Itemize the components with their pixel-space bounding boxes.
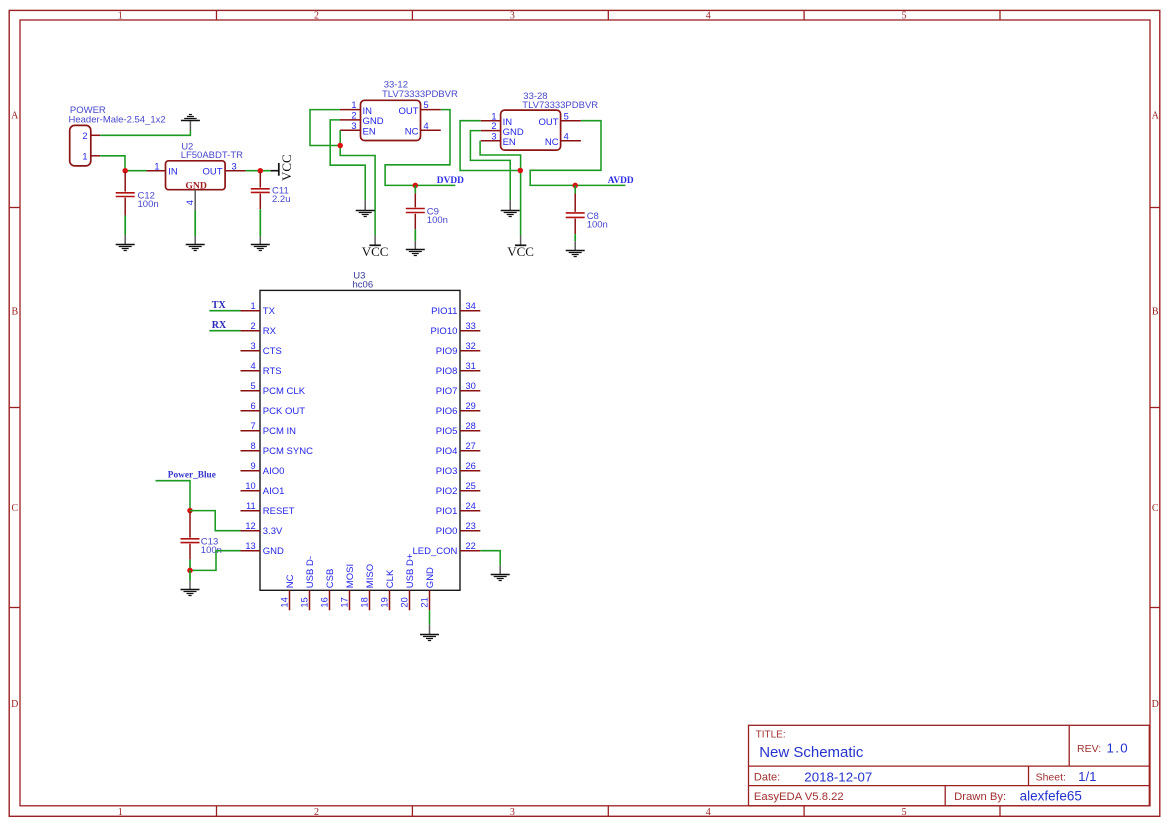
label C9 100n <box>427 207 448 227</box>
svg-text:1: 1 <box>251 301 256 311</box>
svg-text:3: 3 <box>510 10 515 21</box>
U3 pin 17 MOSI <box>340 564 356 610</box>
svg-text:PIO2: PIO2 <box>436 486 458 497</box>
svg-text:5: 5 <box>902 807 907 818</box>
svg-text:PIO6: PIO6 <box>436 406 458 417</box>
U3 pin 16 CSB <box>320 569 336 611</box>
svg-text:VCC: VCC <box>362 244 389 259</box>
U3 pin 6 PCK OUT <box>241 401 306 417</box>
svg-text:3: 3 <box>251 341 256 351</box>
U3 pin 20 USB D+ <box>400 553 416 610</box>
IC U3 hc06 body <box>260 290 460 590</box>
svg-text:17: 17 <box>340 597 350 607</box>
junction C13 / U3 GND / ground <box>187 568 193 574</box>
svg-text:100n: 100n <box>427 215 448 226</box>
svg-text:RX: RX <box>263 326 277 337</box>
svg-text:OUT: OUT <box>539 117 559 128</box>
svg-text:PIO0: PIO0 <box>436 526 458 537</box>
svg-text:USB D+: USB D+ <box>405 553 416 588</box>
POWER pin 2 <box>82 131 100 141</box>
ground stem <box>194 236 196 244</box>
wire U2 OUT to VCC / C11 <box>246 170 271 172</box>
svg-text:PIO3: PIO3 <box>436 466 458 477</box>
svg-text:B: B <box>1152 307 1159 318</box>
capacitor C13 <box>181 512 200 560</box>
svg-text:2: 2 <box>491 121 496 131</box>
ground stem <box>429 625 431 635</box>
svg-text:4: 4 <box>706 807 711 818</box>
svg-text:4: 4 <box>706 10 711 21</box>
svg-text:TLV73333PDBVR: TLV73333PDBVR <box>382 89 458 100</box>
svg-text:3: 3 <box>491 131 496 141</box>
svg-text:VCC: VCC <box>279 154 294 181</box>
svg-text:GND: GND <box>185 181 207 192</box>
wire Power_Blue to node <box>156 481 191 511</box>
svg-text:Header-Male-2.54_1x2: Header-Male-2.54_1x2 <box>69 115 166 126</box>
U3 pin 21 GND <box>420 567 436 610</box>
svg-text:New Schematic: New Schematic <box>759 744 864 761</box>
wire C13 bottom to node <box>189 560 191 571</box>
U3 pin 18 MISO <box>360 564 376 610</box>
TLV2 pin 4 NC <box>545 131 581 148</box>
svg-text:2.2u: 2.2u <box>272 194 291 205</box>
svg-text:GND: GND <box>425 567 436 588</box>
junction AVDD / C8 <box>572 183 578 189</box>
TLV1 pin 2 GND <box>340 111 384 128</box>
svg-text:Sheet:: Sheet: <box>1036 772 1066 784</box>
junction node VCC (U2 OUT / C11) <box>258 168 264 174</box>
svg-text:TITLE:: TITLE: <box>756 730 786 741</box>
svg-text:5: 5 <box>424 100 429 110</box>
ground (C9) <box>406 250 425 256</box>
U3 pin 25 PIO2 <box>436 481 481 497</box>
svg-text:MOSI: MOSI <box>345 564 356 588</box>
svg-text:C: C <box>11 503 18 514</box>
TLV2 pin 1 IN <box>481 111 513 128</box>
power VCC (below TLV1) <box>362 236 389 260</box>
wire TLV1 IN loop to VCC node <box>310 110 340 146</box>
svg-text:14: 14 <box>280 597 290 607</box>
power VCC (below TLV2) <box>507 236 534 260</box>
svg-text:B: B <box>11 307 18 318</box>
U3 pin 22 LED_CON <box>413 541 481 557</box>
svg-text:hc06: hc06 <box>353 279 374 290</box>
U3 pin 7 PCM IN <box>241 421 297 437</box>
svg-text:2: 2 <box>314 10 319 21</box>
svg-text:CLK: CLK <box>385 569 396 588</box>
svg-text:NC: NC <box>285 574 296 588</box>
svg-text:16: 16 <box>320 597 330 607</box>
wire TLV2 IN loop to VCC node <box>460 121 518 171</box>
svg-text:PIO11: PIO11 <box>431 306 457 317</box>
regulator 33-12 TLV73333PDBVR body <box>361 100 421 140</box>
wire net TX stub <box>209 310 240 312</box>
svg-text:28: 28 <box>466 421 476 431</box>
wire U3 pin21 GND to ground <box>429 610 431 624</box>
POWER pin 1 <box>82 151 100 161</box>
U3 pin 23 PIO0 <box>436 521 481 537</box>
label U2 LF50ABDT-TR <box>181 142 243 162</box>
svg-text:2018-12-07: 2018-12-07 <box>804 769 872 784</box>
U3 pin 12 3.3V <box>241 521 284 537</box>
U3 pin 29 PIO6 <box>436 401 481 417</box>
svg-text:34: 34 <box>466 301 476 311</box>
U3 pin 10 AIO1 <box>241 481 285 497</box>
svg-text:4: 4 <box>424 121 429 131</box>
svg-text:PIO9: PIO9 <box>436 346 458 357</box>
svg-text:25: 25 <box>466 481 476 491</box>
svg-text:PCM IN: PCM IN <box>263 426 296 437</box>
title block <box>749 725 1150 806</box>
wire TLV1 OUT to DVDD net <box>385 110 455 186</box>
wire TLV2 OUT to AVDD net <box>530 121 625 186</box>
regulator U2 LF50ABDT-TR body <box>166 161 226 190</box>
ground (U2 pin 4) <box>186 245 205 251</box>
U2 pin 3 OUT <box>203 161 246 177</box>
svg-text:12: 12 <box>245 521 255 531</box>
svg-text:1: 1 <box>491 111 496 121</box>
U3 pin 27 PIO4 <box>436 441 481 457</box>
svg-text:4: 4 <box>564 131 569 141</box>
U3 pin 28 PIO5 <box>436 421 481 437</box>
svg-text:10: 10 <box>245 481 255 491</box>
wire net RX stub <box>209 330 240 332</box>
svg-text:8: 8 <box>251 441 256 451</box>
connector POWER Header-Male-2.54_1x2 <box>70 125 91 165</box>
wire U2 pin4 to ground <box>194 211 196 237</box>
svg-text:RESET: RESET <box>263 506 295 517</box>
svg-text:6: 6 <box>251 401 256 411</box>
ground (U3 pin21) <box>420 635 439 641</box>
svg-text:TX: TX <box>263 306 276 317</box>
ground stem <box>414 241 416 250</box>
ground stem <box>499 565 501 575</box>
svg-text:9: 9 <box>251 461 256 471</box>
ground stem <box>189 581 191 590</box>
label C11 2.2u <box>272 186 291 206</box>
U3 pin 31 PIO8 <box>436 361 481 377</box>
wire TLV2 GND to ground <box>470 131 510 201</box>
ground (TLV1 GND) <box>356 211 375 217</box>
svg-text:32: 32 <box>466 341 476 351</box>
svg-text:AVDD: AVDD <box>608 176 634 186</box>
svg-text:Power_Blue: Power_Blue <box>168 471 216 481</box>
wire TLV1 EN to VCC <box>340 130 375 235</box>
U3 pin 32 PIO9 <box>436 341 481 357</box>
U2 pin 4 GND lead <box>185 190 195 211</box>
svg-text:1: 1 <box>82 151 87 161</box>
label 33-12 TLV73333PDBVR <box>382 80 458 101</box>
wire node to ground <box>189 570 191 580</box>
svg-text:2: 2 <box>351 111 356 121</box>
wire TLV2 EN to VCC <box>480 141 520 236</box>
svg-text:4: 4 <box>251 361 256 371</box>
svg-text:5: 5 <box>251 381 256 391</box>
svg-text:A: A <box>1152 111 1160 122</box>
junction Power_Blue / C13 / U3 3.3V <box>187 508 193 513</box>
svg-text:AIO1: AIO1 <box>263 486 285 497</box>
svg-text:1/1: 1/1 <box>1078 769 1097 784</box>
svg-text:OUT: OUT <box>203 167 223 178</box>
ground (U3 pin22) <box>491 575 510 581</box>
svg-text:3.3V: 3.3V <box>263 526 283 537</box>
ground stem <box>124 235 126 244</box>
svg-text:22: 22 <box>466 541 476 551</box>
label 33-28 TLV73333PDBVR <box>522 91 598 111</box>
svg-text:13: 13 <box>245 541 255 551</box>
svg-text:D: D <box>1152 699 1159 710</box>
svg-text:21: 21 <box>420 597 430 607</box>
svg-text:27: 27 <box>466 441 476 451</box>
svg-text:26: 26 <box>466 461 476 471</box>
wire POWER pin1 to U2 IN <box>100 156 146 171</box>
label C12 100n <box>138 191 159 211</box>
U3 pin 9 AIO0 <box>241 461 285 477</box>
svg-text:PIO5: PIO5 <box>436 426 458 437</box>
svg-text:Date:: Date: <box>754 772 780 784</box>
svg-text:GND: GND <box>263 546 284 557</box>
svg-text:USB D-: USB D- <box>305 556 316 588</box>
label U3 hc06 <box>353 271 374 291</box>
svg-text:alexfefe65: alexfefe65 <box>1020 788 1082 803</box>
svg-text:PIO1: PIO1 <box>436 506 458 517</box>
TLV1 pin 3 EN <box>340 121 376 138</box>
TLV2 pin 5 OUT <box>539 111 581 128</box>
svg-text:3: 3 <box>351 121 356 131</box>
ground (C12) <box>116 245 135 251</box>
junction TLV2 IN/EN tie <box>518 168 524 174</box>
U3 pin 1 TX <box>241 301 276 317</box>
U3 pin 2 RX <box>241 321 277 337</box>
svg-text:33: 33 <box>466 321 476 331</box>
svg-text:PIO7: PIO7 <box>436 386 458 397</box>
svg-text:RTS: RTS <box>263 366 282 377</box>
svg-text:EasyEDA V5.8.22: EasyEDA V5.8.22 <box>754 791 844 803</box>
wire C9 to ground <box>414 229 416 241</box>
svg-text:DVDD: DVDD <box>437 176 464 186</box>
svg-text:TX: TX <box>212 300 227 311</box>
ground stem <box>364 200 366 210</box>
svg-text:100n: 100n <box>138 199 159 210</box>
ground (C13 / U3 GND) <box>181 590 200 596</box>
capacitor C11 <box>251 172 270 209</box>
ground (C11) <box>251 245 270 251</box>
TLV2 pin 3 EN <box>481 131 516 148</box>
ground (C8) <box>566 251 585 257</box>
capacitor C12 <box>116 172 135 216</box>
svg-text:EN: EN <box>363 126 376 137</box>
TLV2 pin 2 GND <box>481 121 524 138</box>
svg-text:31: 31 <box>466 361 476 371</box>
U3 pin 26 PIO3 <box>436 461 481 477</box>
svg-text:C: C <box>1152 503 1159 514</box>
wire U3 pin22 LED_CON to ground <box>480 551 500 566</box>
junction DVDD / C9 <box>413 183 419 189</box>
U3 pin 33 PIO10 <box>430 321 480 337</box>
TLV1 pin 1 IN <box>340 100 372 117</box>
U3 pin 19 CLK <box>380 569 396 610</box>
label POWER Header-Male-2.54_1x2 <box>69 105 166 126</box>
svg-text:2: 2 <box>82 131 87 141</box>
capacitor C9 <box>406 185 425 229</box>
wire TLV1 GND to ground <box>330 120 365 200</box>
U3 pin 11 RESET <box>241 501 295 517</box>
svg-text:NC: NC <box>545 137 559 148</box>
svg-text:AIO0: AIO0 <box>263 466 285 477</box>
ground stem <box>574 241 576 250</box>
U3 pin 24 PIO1 <box>436 501 481 517</box>
ground (inverted, POWER pin2) <box>181 115 200 121</box>
svg-text:IN: IN <box>168 167 178 178</box>
capacitor C8 <box>566 185 585 234</box>
svg-text:EN: EN <box>503 137 516 148</box>
ground stem <box>189 121 191 131</box>
svg-text:Drawn By:: Drawn By: <box>954 791 1006 803</box>
power VCC (right-pointing, at U2 OUT) <box>271 154 295 181</box>
wire C11 to ground <box>259 209 261 236</box>
TLV1 pin 5 OUT <box>398 100 440 117</box>
svg-text:4: 4 <box>185 200 195 205</box>
svg-text:1: 1 <box>118 10 123 21</box>
svg-text:7: 7 <box>251 421 256 431</box>
label C8 100n <box>587 211 608 231</box>
svg-text:NC: NC <box>405 126 419 137</box>
svg-text:CTS: CTS <box>263 346 282 357</box>
svg-text:TLV73333PDBVR: TLV73333PDBVR <box>522 100 598 111</box>
U3 pin 4 RTS <box>241 361 282 377</box>
U3 pin 8 PCM SYNC <box>241 441 314 457</box>
svg-text:24: 24 <box>466 501 476 511</box>
svg-text:3: 3 <box>232 161 237 171</box>
svg-text:LED_CON: LED_CON <box>413 546 458 557</box>
U3 pin 5 PCM CLK <box>241 381 306 397</box>
svg-text:1: 1 <box>154 161 159 171</box>
svg-text:2: 2 <box>251 321 256 331</box>
U2 pin 1 IN <box>147 161 178 177</box>
regulator 33-28 TLV73333PDBVR body <box>501 110 561 150</box>
wire node to U3 pin12 3.3V <box>190 511 241 531</box>
svg-text:PIO8: PIO8 <box>436 366 458 377</box>
svg-text:23: 23 <box>466 521 476 531</box>
junction TLV1 IN/EN tie <box>337 143 343 149</box>
svg-text:OUT: OUT <box>398 106 418 117</box>
svg-text:20: 20 <box>400 597 410 607</box>
svg-text:D: D <box>11 699 18 710</box>
label C13 100n <box>201 536 222 556</box>
svg-text:PCK OUT: PCK OUT <box>263 406 305 417</box>
wire POWER pin2 to GND net <box>100 130 190 135</box>
svg-text:REV:: REV: <box>1077 743 1101 755</box>
svg-text:PIO4: PIO4 <box>436 446 458 457</box>
svg-text:1: 1 <box>351 100 356 110</box>
svg-text:30: 30 <box>466 381 476 391</box>
svg-text:100n: 100n <box>587 219 608 230</box>
U3 pin 34 PIO11 <box>431 301 480 317</box>
U3 pin 13 GND <box>241 541 285 557</box>
svg-text:1: 1 <box>118 807 123 818</box>
svg-text:PCM SYNC: PCM SYNC <box>263 446 313 457</box>
svg-text:PIO10: PIO10 <box>430 326 457 337</box>
wire C12 to ground <box>124 216 126 236</box>
U3 pin 30 PIO7 <box>436 381 481 397</box>
wire C8 to ground <box>574 234 576 241</box>
junction node VIN (POWER pin1 / U2 IN / C12) <box>122 168 128 174</box>
svg-text:MISO: MISO <box>365 564 376 588</box>
svg-text:PCM CLK: PCM CLK <box>263 386 306 397</box>
wire U3 pin13 GND to node <box>190 551 241 571</box>
svg-text:5: 5 <box>564 111 569 121</box>
svg-text:19: 19 <box>380 597 390 607</box>
svg-text:15: 15 <box>300 597 310 607</box>
svg-text:VCC: VCC <box>507 244 534 259</box>
ground (TLV2 GND) <box>501 211 520 217</box>
svg-text:RX: RX <box>212 320 227 331</box>
U3 pin 3 CTS <box>241 341 282 357</box>
ground stem <box>259 236 261 244</box>
svg-text:3: 3 <box>510 807 515 818</box>
svg-text:18: 18 <box>360 597 370 607</box>
svg-text:CSB: CSB <box>325 569 336 589</box>
svg-text:29: 29 <box>466 401 476 411</box>
svg-text:2: 2 <box>314 807 319 818</box>
ground stem <box>509 200 511 210</box>
U3 pin 14 NC <box>280 574 296 610</box>
svg-text:A: A <box>11 111 19 122</box>
svg-text:1.0: 1.0 <box>1107 741 1129 756</box>
TLV1 pin 4 NC <box>405 121 441 138</box>
svg-text:LF50ABDT-TR: LF50ABDT-TR <box>181 150 243 161</box>
svg-text:11: 11 <box>246 501 256 511</box>
svg-text:5: 5 <box>902 10 907 21</box>
U3 pin 15 USB D- <box>300 556 316 610</box>
